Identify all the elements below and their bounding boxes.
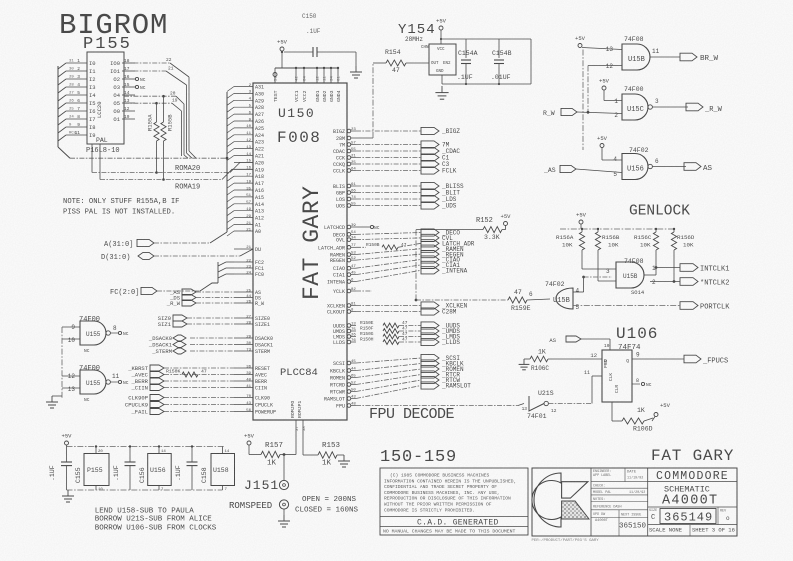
IC U156 decoupling box [148,454,172,486]
connector INTCLK1 [680,264,698,272]
U150 pin (A16) [234,189,253,191]
output arrow C3 [421,160,439,167]
wire PAL pin13 net 19 [124,102,172,104]
bus tap FC0 [218,274,226,278]
U150 pin (A22) [234,148,253,150]
output arrow _LLDS [421,338,439,345]
output arrow C28M [421,308,439,315]
decoupling ground bus [67,489,223,491]
U150 pin (A25) [234,127,253,129]
wire CLK90P [164,397,234,399]
U150 top pin 12 (GND1) [316,68,318,83]
wire KBCLK [356,364,421,371]
U150 pin (A31) [234,86,253,88]
U150 pin (A18) [234,175,253,177]
wire R157 to ROMJPO [280,454,296,456]
wire U158 output [650,56,680,58]
wire J151 to ground [283,509,285,515]
wire R156A to gate [581,250,583,269]
wire _CIIN [164,387,234,389]
wire CCKQ to arrow [356,163,421,165]
U150 top pin 84 (VCC2) [303,68,305,83]
PAL pin 16 (O2) [122,78,135,80]
U150 pin (A24) [234,134,253,136]
ground for J151 [283,515,285,521]
wire ROMA19 [99,144,101,180]
output arrow _REGEN [421,251,439,258]
title block logo cell [590,468,592,536]
wire R156C down [655,250,657,268]
wire CLR to R106D [611,402,613,421]
wire U154 output [653,106,689,108]
wire CCLK to arrow [356,170,421,172]
output arrow _UMDS [421,327,439,334]
bus wire to chip [70,157,227,159]
wire +5V to U154 pin1 [603,90,605,101]
U150 TEST pin NC bubble [273,73,277,77]
PAL pin 3 (I2) [66,78,87,80]
U150 bottom pin 38 (ROMJP1) [302,420,304,432]
U150 top pin 42 (VCC1) [295,68,297,83]
U150 top pin 61 (GND4) [337,68,339,83]
wire PAL pin14 net 20 [124,95,176,97]
ground for Y154 [441,86,443,93]
PAL U/P155 body [87,52,124,144]
U150 pin (A1) [234,224,253,226]
bus tap FC2 [218,262,226,266]
wire _AS to U156 pin5 [576,169,622,173]
output arrow _BLIT [421,189,439,196]
Commodore logo C outline [532,473,561,527]
wire BIGZ to arrow [356,130,421,132]
wire U155a inputs [62,326,80,328]
drawing number box [660,509,716,524]
oscillator Y154 body [429,44,456,75]
output arrow _SCSI [421,354,439,361]
output arrow _INTENA [421,267,439,274]
wire RAMSLOT [356,386,421,399]
output arrow _R_W [686,103,703,111]
output arrow 7M [421,141,439,148]
wire PAL pin18 net 22 [124,62,170,64]
wire UOS [356,205,421,207]
wire A bus [154,242,210,244]
PAL pin 11 (I9) [66,134,87,136]
output arrow _RTCW [421,376,439,383]
wire osc ground rail [442,83,531,85]
wire R152 net vertical [415,230,417,300]
Commodore logo K lower arm hatched [562,501,589,519]
output arrow CVL [421,234,439,241]
date sub column [624,468,626,482]
wire SIZ1 [187,323,234,325]
wire RTCWR [356,380,421,392]
U150 pin (A30) [234,92,253,94]
wire U15B pin4 up [573,291,584,293]
wire _FAIL [164,411,234,413]
output arrow _XCLKEN [421,302,439,309]
wire D bus [154,255,240,257]
wire SIZ0 [187,317,234,319]
connector PORTCLK [680,302,698,310]
wire gate to INTCLK1 [644,274,656,276]
wire DECO [356,233,421,235]
wire _BERR [164,380,234,382]
U150 pin (DU) [234,248,253,250]
U150 pin (A17) [234,182,253,184]
output arrow FCLK [421,167,439,174]
wire _DSACK0 [190,337,234,339]
wire _DSACK1 [190,344,234,346]
wire CPUCLK9 [164,404,234,406]
capacitor C155 [66,447,68,463]
wire GBP [356,192,421,194]
title block mid column [647,468,649,536]
wire to J151 [283,455,285,481]
connector AS input to PRE [566,336,581,342]
U150 pin (A12) [234,217,253,219]
U150 pin (A0) [234,230,253,232]
wire 7M to arrow [356,144,421,146]
wire ROMEN [356,369,421,378]
output arrow _CIA1 [421,261,439,268]
ground for C150 [355,66,357,72]
upd cell [618,510,620,536]
wire +5V to U156 pin4 [601,148,603,161]
title block outer box [532,468,737,536]
U150 bottom pin 37 (ROMJPO) [295,420,297,432]
wire SCSI [356,358,421,363]
U150 pin (A20) [234,161,253,163]
wire R_W to U154 pin2 [577,112,622,114]
output arrow _CDAC [421,147,439,154]
PAL pin 17 (IO1) [122,70,135,72]
Commodore logo K upper arm [562,482,588,498]
wire osc top rail [441,38,531,40]
wire OVL [356,238,421,240]
IC P155 decoupling box [84,454,109,486]
GENLOCK +5V rail [560,228,674,230]
U150 pin (A15) [234,196,253,198]
wire ROMA20 [91,144,93,173]
wire RAMEN [356,249,421,255]
U155b output NC [111,381,119,383]
PAL pin 8 (I7) [66,118,87,120]
U155a output NC [111,332,119,334]
wire R156D to INTCLK2 [673,250,675,282]
wire FPU to U21S [356,405,518,407]
copyright box [380,468,528,535]
wire _AS to U150 [196,291,234,293]
capacitor C156 [129,447,131,463]
PAL pin 1 (I0) [66,62,87,64]
rev cell [717,507,719,525]
PAL pin 4 (I3) [66,86,87,88]
resistor R155A [156,103,158,122]
output arrow LATCH_ADR [421,240,439,247]
U150 pin (A23) [234,141,253,143]
wire XCLKEN to R159E [415,299,418,302]
output arrow _FPUCS [684,355,701,363]
IC U158 decoupling box [211,454,235,486]
wire RTCRD [356,375,421,385]
U150 top pin 11 (GND2) [323,68,325,83]
PAL pin 9 (I8) [66,126,87,128]
wire _STERM [190,350,234,352]
wire _KBRST [164,367,234,369]
ground for U155 [51,396,53,402]
wire LOS [356,198,421,200]
U106 Qbar NC [632,383,640,385]
bus tap FC1 [218,268,226,272]
wire 28M to R154 [372,63,374,138]
wire ROMJP1 to R153 [302,432,304,455]
copyright dividers [380,516,528,518]
U150 pin (A21) [234,155,253,157]
U150 top pin 59 (TEST) [274,68,276,83]
wire U158 pin12 [588,65,622,67]
wire XCLKEN [356,305,421,307]
wire LMDS [399,336,421,338]
bus A vertical [226,92,228,232]
wire FC bus [157,290,200,292]
output arrow _CIAO [421,256,439,263]
ground for R106C [523,359,525,364]
U150 pin (A27) [234,113,253,115]
U150 pin (A13) [234,210,253,212]
wire _DS to U150 [196,297,234,299]
U150 pin (A26) [234,120,253,122]
wire CLK input [592,375,602,377]
wire REGEN [356,254,421,260]
output arrow _LDS [421,195,439,202]
output arrow _DECO [421,229,439,236]
flip-flop U106 body [602,350,632,402]
U150 top pin 34 (GND3) [330,68,332,83]
PAL pin 18 (IO0) [122,62,135,64]
output arrow _BIGZ [421,127,439,134]
output arrow _UUDS [421,322,439,329]
wire _AVEC [164,374,234,376]
PAL pin 5 (I4) [66,94,87,96]
PAL pin 2 (I1) [66,70,87,72]
PAL pin 6 (I5) [66,102,87,104]
wire LATCH_ADR [356,246,366,248]
output arrow C1 [421,154,439,161]
output arrow _RTCR [421,371,439,378]
wire YCLK stub [356,290,372,292]
U150 pin (FC2) [234,261,253,263]
wire +5V to U158 [582,48,622,50]
wire Q output [632,358,684,360]
wire CCK to arrow [356,157,421,159]
output arrow _BLISS [421,182,439,189]
wire CDAC to arrow [356,150,421,152]
PAL pin 7 (I6) [66,110,87,112]
wire CLKOUT [356,311,421,313]
wire U21S out to U106 [548,403,592,405]
wire PAL pin17 net 21 [124,70,166,72]
vertical +5V distribution wire [582,50,584,151]
PAL left bus wire [57,66,59,147]
wire D input [565,358,602,360]
ground for decoupling [67,490,69,496]
wire U15B pin5 to PORTCLK [573,305,680,307]
power rail above U150 [275,67,338,69]
resistor R155B [163,96,165,122]
output arrow _ROMEN [421,365,439,372]
output arrow _UDS [421,202,439,209]
output arrow _LMDS [421,333,439,340]
ground for R153 [343,455,345,461]
capacitor C158 [191,447,193,463]
wire CIA1 [356,265,421,275]
wire UUDS [399,325,421,327]
U150 pin (FC0) [234,273,253,275]
PAL pin 19 (O1) [122,118,135,120]
U150 pin (A29) [234,99,253,101]
wire R154 to 28M net [373,62,386,64]
PAL pin 13 (O5) [122,102,135,104]
wire U156 output [653,166,687,168]
output arrow _RAMEN [421,245,439,252]
output arrow _RAMSLOT [421,382,439,389]
connector *NTCLK2 [680,278,698,286]
U150 pin (A14) [234,203,253,205]
U150 pin (A19) [234,168,253,170]
wire AS to PRE pin [581,338,610,340]
wire INTENA [356,270,421,281]
wire UMDS [399,330,421,332]
output arrow _KBCLK [421,360,439,367]
PAL pin 14 (O4) [122,94,135,96]
wire U155b inputs [62,375,80,377]
PAL pin 15 (O3) [122,86,135,88]
wire CIAO [356,260,421,269]
wire _R_W to U150 [196,302,234,304]
U150 pin (FC1) [234,267,253,269]
U150 pin (A28) [234,106,253,108]
wire LLDS [399,341,421,343]
output arrow BR_W [680,53,697,61]
PAL pin 12 (O0) [122,110,135,112]
wire BLIS [356,185,421,187]
wire R156B down [597,250,599,281]
IC U150 FAT GARY body [253,83,347,420]
output arrow AS [684,163,701,171]
